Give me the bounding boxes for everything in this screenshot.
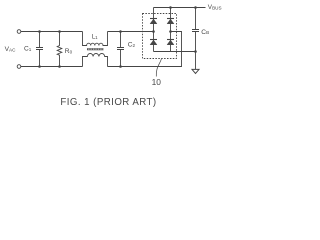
svg-text:C2: C2 xyxy=(128,42,136,49)
junction dot bridge right midpoint xyxy=(169,30,172,33)
junction dot CB bottom xyxy=(194,50,197,53)
resistor R0 xyxy=(57,32,62,67)
AC input terminal bottom xyxy=(17,65,21,69)
ground symbol xyxy=(192,69,199,73)
capacitor C2 xyxy=(117,32,124,67)
svg-text:10: 10 xyxy=(152,77,162,87)
wire bridge top positive bus to VBUS xyxy=(154,7,206,9)
wire top rail input to L1 xyxy=(21,31,83,33)
junction dot right branch top xyxy=(169,6,172,9)
choke L1 top winding xyxy=(83,32,108,46)
junction dot C2 bottom xyxy=(119,65,122,68)
capacitor C1 xyxy=(36,32,43,67)
junction dot R0 bottom xyxy=(58,65,61,68)
wire bridge left branch xyxy=(153,8,155,52)
wire bottom rail L1 to bridge right branch xyxy=(108,32,182,67)
diode D1 upper left xyxy=(150,19,157,24)
capacitor CB xyxy=(192,8,199,52)
choke L1 core xyxy=(87,49,104,50)
junction dot C1 top xyxy=(38,30,41,33)
svg-text:C1: C1 xyxy=(24,46,32,53)
diode D2 lower left xyxy=(150,40,157,45)
svg-text:VAC: VAC xyxy=(5,46,16,53)
junction dot R0 top xyxy=(58,30,61,33)
AC input terminal top xyxy=(17,30,21,34)
wire bridge bottom negative rail xyxy=(154,51,196,53)
wire bottom rail input to L1 xyxy=(21,66,83,68)
diode D3 upper right xyxy=(167,19,174,24)
svg-text:L1: L1 xyxy=(92,34,98,41)
junction dot C1 bottom xyxy=(38,65,41,68)
svg-text:R0: R0 xyxy=(65,48,73,55)
junction dot CB top xyxy=(194,6,197,9)
dashed enclosure box 10 xyxy=(143,14,177,59)
diode D4 lower right xyxy=(167,40,174,45)
choke L1 bottom winding xyxy=(83,54,108,67)
svg-text:CB: CB xyxy=(201,29,209,36)
junction dot bridge left midpoint xyxy=(152,30,155,33)
svg-text:FIG. 1 (PRIOR ART): FIG. 1 (PRIOR ART) xyxy=(60,97,156,108)
wire to ground xyxy=(195,52,197,70)
wire top rail L1 to bridge xyxy=(108,31,154,33)
junction dot C2 top xyxy=(119,30,122,33)
wire bridge right branch xyxy=(170,8,172,52)
svg-text:VBUS: VBUS xyxy=(208,4,222,11)
leader line to label 10 xyxy=(156,59,161,77)
